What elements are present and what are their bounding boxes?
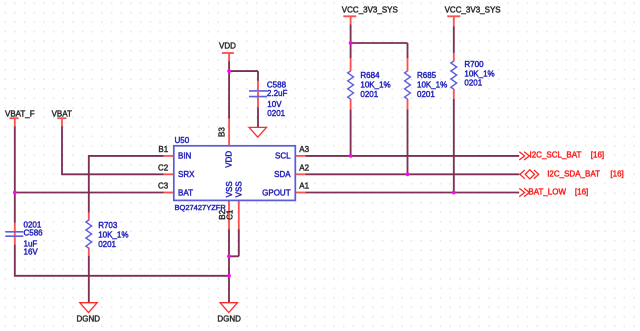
svg-text:C3: C3 bbox=[158, 182, 169, 191]
svg-text:10K_1%: 10K_1% bbox=[417, 81, 447, 90]
svg-text:10K_1%: 10K_1% bbox=[360, 81, 390, 90]
svg-text:2.2uF: 2.2uF bbox=[267, 89, 288, 98]
svg-text:VBAT_F: VBAT_F bbox=[5, 109, 35, 118]
svg-text:BAT_LOW: BAT_LOW bbox=[528, 188, 566, 197]
svg-text:[16]: [16] bbox=[591, 151, 604, 160]
svg-text:GPOUT: GPOUT bbox=[262, 188, 291, 197]
svg-text:U50: U50 bbox=[175, 136, 190, 145]
svg-text:A1: A1 bbox=[299, 182, 309, 191]
svg-text:VCC_3V3_SYS: VCC_3V3_SYS bbox=[445, 6, 501, 15]
svg-text:SRX: SRX bbox=[178, 170, 195, 179]
svg-text:A3: A3 bbox=[299, 145, 309, 154]
svg-text:BAT: BAT bbox=[178, 188, 193, 197]
svg-text:C588: C588 bbox=[267, 80, 287, 89]
svg-text:0201: 0201 bbox=[417, 90, 435, 99]
svg-text:R684: R684 bbox=[360, 71, 380, 80]
svg-text:C1: C1 bbox=[226, 209, 235, 220]
svg-text:I2C_SCL_BAT: I2C_SCL_BAT bbox=[530, 151, 582, 160]
svg-text:0201: 0201 bbox=[98, 240, 116, 249]
svg-text:R703: R703 bbox=[98, 221, 118, 230]
svg-text:DGND: DGND bbox=[217, 315, 241, 324]
svg-text:0201: 0201 bbox=[464, 79, 482, 88]
svg-text:R700: R700 bbox=[464, 60, 484, 69]
svg-text:[16]: [16] bbox=[575, 188, 588, 197]
svg-text:VDD: VDD bbox=[219, 42, 236, 51]
svg-text:VSS: VSS bbox=[234, 181, 243, 197]
svg-text:BIN: BIN bbox=[178, 152, 192, 161]
svg-text:VDD: VDD bbox=[225, 151, 234, 168]
svg-text:B3: B3 bbox=[218, 127, 227, 137]
svg-text:C2: C2 bbox=[158, 163, 169, 172]
svg-text:VCC_3V3_SYS: VCC_3V3_SYS bbox=[342, 6, 398, 15]
svg-text:A2: A2 bbox=[299, 163, 309, 172]
svg-text:C586: C586 bbox=[24, 228, 44, 237]
svg-text:0201: 0201 bbox=[360, 90, 378, 99]
svg-text:SDA: SDA bbox=[274, 170, 291, 179]
svg-text:VSS: VSS bbox=[225, 181, 234, 197]
svg-text:16V: 16V bbox=[24, 248, 39, 257]
svg-text:B1: B1 bbox=[158, 145, 168, 154]
svg-text:[16]: [16] bbox=[610, 169, 623, 178]
svg-text:0201: 0201 bbox=[267, 109, 285, 118]
svg-text:VBAT: VBAT bbox=[52, 109, 72, 118]
svg-text:10V: 10V bbox=[267, 100, 282, 109]
svg-text:10K_1%: 10K_1% bbox=[98, 230, 128, 239]
svg-text:10K_1%: 10K_1% bbox=[464, 70, 494, 79]
svg-text:R685: R685 bbox=[417, 71, 437, 80]
svg-text:I2C_SDA_BAT: I2C_SDA_BAT bbox=[547, 169, 600, 178]
svg-text:DGND: DGND bbox=[77, 315, 101, 324]
svg-text:SCL: SCL bbox=[275, 152, 291, 161]
